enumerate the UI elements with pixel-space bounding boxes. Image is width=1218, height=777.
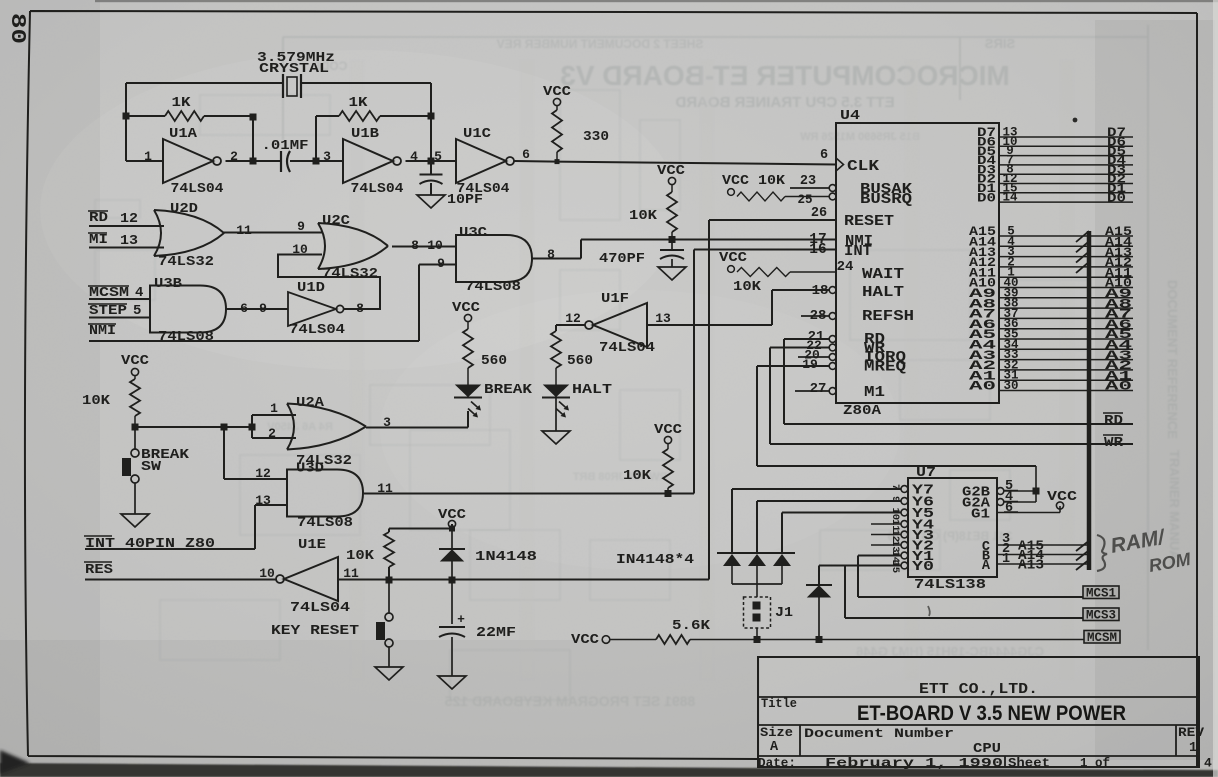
svg-text:VCC: VCC bbox=[1047, 490, 1077, 505]
svg-text:1K: 1K bbox=[172, 95, 192, 111]
junction CLK 330 bbox=[555, 159, 560, 164]
wire crystal feedback top bbox=[126, 83, 431, 161]
junction VCC diode node bbox=[449, 526, 455, 532]
pin 4 G2A of U7 bbox=[997, 499, 1004, 506]
svg-text:23: 23 bbox=[800, 174, 816, 189]
junction U2A tap bbox=[249, 424, 256, 431]
junction R2 bbox=[313, 158, 320, 165]
diode D5 1N4148 bbox=[451, 529, 453, 550]
svg-text:BUSRQ: BUSRQ bbox=[860, 192, 912, 208]
svg-text:19: 19 bbox=[802, 357, 818, 372]
ground KEY RESET bbox=[375, 667, 403, 680]
svg-text:INT: INT bbox=[844, 244, 872, 260]
svg-text:22MF: 22MF bbox=[476, 626, 516, 641]
svg-text:U1D: U1D bbox=[297, 281, 325, 296]
pin 9 Y6 of U7 bbox=[901, 498, 908, 505]
wire U2D out to U2C pin9 bbox=[224, 232, 322, 234]
svg-text:74LS04: 74LS04 bbox=[290, 601, 350, 616]
jumper J1 bbox=[756, 584, 758, 597]
diode D4 1N4148 bbox=[818, 566, 820, 586]
svg-text:D0: D0 bbox=[977, 190, 996, 205]
svg-text:10: 10 bbox=[259, 566, 275, 581]
wire CLK net bbox=[515, 161, 837, 165]
svg-text:12: 12 bbox=[255, 466, 271, 481]
bus ticks A15-A12 bbox=[1076, 231, 1089, 242]
svg-text:U1A: U1A bbox=[169, 127, 198, 142]
svg-text:25: 25 bbox=[797, 193, 812, 207]
diode D2 1N4148 bbox=[748, 554, 766, 566]
svg-text:A: A bbox=[770, 740, 779, 755]
junction KEY RESET node bbox=[386, 577, 393, 584]
svg-text:Size: Size bbox=[760, 725, 793, 740]
wire U3D pin12 bbox=[224, 427, 287, 479]
svg-text:RD: RD bbox=[1104, 414, 1123, 429]
wire U1F out to 560 bbox=[556, 325, 585, 331]
wire NMI to U3C pin9 bbox=[89, 265, 456, 342]
svg-text:A13: A13 bbox=[1018, 559, 1044, 574]
svg-text:14: 14 bbox=[1002, 191, 1018, 205]
resistor 5.6K bbox=[610, 639, 656, 641]
pin 11 Y4 of U7 bbox=[901, 521, 908, 528]
ground C4 bbox=[438, 676, 466, 689]
svg-text:February 1, 1990: February 1, 1990 bbox=[825, 756, 1003, 771]
svg-text:HALT: HALT bbox=[862, 285, 904, 301]
wire Y7 to diode rail bbox=[732, 489, 901, 553]
svg-text:M1: M1 bbox=[864, 385, 885, 401]
svg-text:16: 16 bbox=[809, 242, 826, 258]
svg-text:VCC: VCC bbox=[571, 633, 599, 648]
svg-text:DOCUMENT REFERENCE: DOCUMENT REFERENCE bbox=[1165, 280, 1180, 439]
svg-text:U4: U4 bbox=[840, 109, 860, 124]
svg-text:ET-BOARD V 3.5 NEW POWER: ET-BOARD V 3.5 NEW POWER bbox=[857, 701, 1126, 725]
svg-text:Title: Title bbox=[761, 696, 797, 711]
junction INT pullup bbox=[665, 490, 672, 497]
junction NMI cap node bbox=[669, 236, 676, 243]
svg-text:SW: SW bbox=[141, 460, 162, 475]
svg-text:26: 26 bbox=[811, 206, 827, 221]
LED BREAK bbox=[456, 385, 480, 397]
svg-text:U1F: U1F bbox=[601, 292, 629, 307]
wire Y4 stub bbox=[871, 523, 901, 525]
svg-text:J1: J1 bbox=[775, 606, 793, 621]
svg-text:CLK: CLK bbox=[847, 159, 879, 175]
VCC G1 bbox=[1056, 502, 1063, 509]
svg-text:WR: WR bbox=[1104, 436, 1124, 451]
ground C3 bbox=[658, 267, 686, 280]
wire Y1 to MCS1 bbox=[858, 556, 1083, 598]
wire INT40 net bbox=[85, 548, 255, 550]
svg-text:1: 1 bbox=[1002, 552, 1010, 567]
svg-text:U1E: U1E bbox=[298, 538, 326, 553]
ghost frame top-right bbox=[283, 25, 1148, 650]
ground BREAK SW bbox=[121, 514, 149, 527]
ground HALT LED bbox=[542, 431, 570, 444]
svg-text:8: 8 bbox=[356, 301, 364, 316]
svg-text:74LS04: 74LS04 bbox=[171, 182, 224, 197]
svg-text:6: 6 bbox=[1005, 501, 1013, 516]
junction BREAK net bbox=[132, 424, 139, 431]
LED HALT bbox=[544, 385, 568, 397]
wire MCSM net bbox=[690, 639, 1084, 641]
svg-text:G1: G1 bbox=[971, 508, 990, 523]
svg-text:74LS04: 74LS04 bbox=[351, 182, 404, 197]
wire Y3 stub bbox=[871, 534, 901, 536]
junction J1 on MCSM line bbox=[754, 636, 761, 643]
svg-text:REV: REV bbox=[1178, 726, 1205, 740]
pin 12 Y3 of U7 bbox=[901, 531, 908, 538]
svg-text:A0: A0 bbox=[1105, 379, 1132, 394]
pin 13 Y2 of U7 bbox=[901, 542, 908, 549]
svg-text:BREAK: BREAK bbox=[484, 383, 533, 398]
switch BREAK SW bbox=[134, 427, 136, 449]
svg-text:MCSM: MCSM bbox=[1087, 631, 1117, 645]
svg-text:80: 80 bbox=[5, 13, 28, 44]
wire BREAK net bbox=[135, 426, 252, 428]
svg-text:Z80A: Z80A bbox=[843, 403, 882, 419]
svg-text:RD: RD bbox=[89, 210, 108, 226]
svg-text:MCS3: MCS3 bbox=[1086, 609, 1116, 623]
pin 7 Y7 of U7 bbox=[901, 486, 908, 493]
svg-text:VCC: VCC bbox=[121, 354, 149, 369]
pin 10 Y5 of U7 bbox=[901, 509, 908, 516]
svg-text:VCC 10K: VCC 10K bbox=[722, 174, 786, 189]
svg-text:10K: 10K bbox=[346, 549, 375, 564]
svg-text:SHEET 2 DOCUMENT NUMBER REV: SHEET 2 DOCUMENT NUMBER REV bbox=[497, 37, 704, 51]
IC U4 Z80A box bbox=[836, 123, 999, 403]
svg-text:SIRS: SIRS bbox=[985, 36, 1016, 51]
svg-text:ETT CO.,LTD.: ETT CO.,LTD. bbox=[919, 681, 1038, 698]
wire MCSM to U3B bbox=[89, 298, 150, 300]
svg-text:74LS08: 74LS08 bbox=[297, 516, 353, 531]
svg-text:10K: 10K bbox=[623, 469, 652, 484]
wire Y2 stub bbox=[871, 544, 901, 546]
svg-text:U7: U7 bbox=[916, 466, 936, 481]
wire G2B G2A to MREQ bbox=[1035, 466, 1037, 502]
junction D4 on MCSM line bbox=[816, 636, 823, 643]
ghost vertical striping bbox=[350, 60, 364, 680]
pin 14 Y1 of U7 bbox=[901, 552, 908, 559]
svg-text:5: 5 bbox=[434, 149, 442, 164]
svg-text:KEY RESET: KEY RESET bbox=[271, 624, 359, 639]
svg-text:1: 1 bbox=[1189, 741, 1197, 756]
svg-text:U1C: U1C bbox=[463, 127, 491, 142]
svg-text:13: 13 bbox=[655, 311, 671, 326]
handwritten mark near title bbox=[928, 606, 930, 616]
wire U1B output bbox=[406, 160, 457, 162]
svg-text:B15 JR5690 M1526 RW: B15 JR5690 M1526 RW bbox=[800, 131, 920, 143]
svg-text:RES: RES bbox=[85, 562, 113, 578]
ink speck top-right bbox=[1073, 118, 1078, 123]
svg-text:24: 24 bbox=[837, 259, 854, 275]
wire U1D out loop to U2C pin10 bbox=[278, 255, 380, 310]
title block frame bbox=[758, 657, 1199, 767]
svg-text:74LS08: 74LS08 bbox=[158, 330, 214, 345]
capacitor C2 10PF bbox=[430, 161, 432, 174]
svg-text:3: 3 bbox=[323, 149, 331, 164]
svg-text:74LS138: 74LS138 bbox=[914, 577, 986, 593]
svg-text:2: 2 bbox=[268, 426, 276, 441]
pin 5 G2B of U7 bbox=[997, 488, 1004, 495]
svg-text:U1B: U1B bbox=[351, 127, 379, 142]
wire MI to U2D bbox=[89, 247, 164, 249]
wire U2A inputs bbox=[252, 415, 296, 438]
wire U1F in to HALT pin bbox=[647, 290, 829, 325]
wire Y6 to diode rail bbox=[757, 501, 901, 553]
svg-text:15: 15 bbox=[889, 561, 901, 574]
svg-text:74LS04: 74LS04 bbox=[599, 341, 655, 356]
wire Y0 to MCS3 and diode D4 bbox=[819, 566, 1083, 619]
junction crystal loop bbox=[123, 113, 130, 120]
svg-text:Y0: Y0 bbox=[912, 560, 934, 575]
wire RD to U2D bbox=[89, 225, 164, 227]
svg-text:U3C: U3C bbox=[459, 226, 487, 241]
junction diode node bbox=[449, 577, 456, 584]
address bus bar bbox=[1087, 231, 1092, 570]
svg-text:IN4148*4: IN4148*4 bbox=[616, 552, 694, 568]
wire RES to U1E bbox=[85, 579, 277, 581]
svg-text:470PF: 470PF bbox=[599, 252, 645, 267]
wire RESET net bbox=[338, 220, 836, 580]
svg-text:A: A bbox=[982, 559, 991, 574]
svg-text:10K: 10K bbox=[733, 280, 762, 295]
diode D3 1N4148 bbox=[773, 554, 791, 566]
wire U3D pin13 bbox=[255, 505, 287, 549]
svg-text:8891 SET PROGRAM KEYBOARD 125: 8891 SET PROGRAM KEYBOARD 125 bbox=[445, 693, 696, 709]
svg-text:30: 30 bbox=[1003, 379, 1018, 393]
svg-text:D0: D0 bbox=[1107, 190, 1126, 205]
svg-text:1 of: 1 of bbox=[1080, 756, 1110, 771]
svg-text:330: 330 bbox=[583, 130, 609, 145]
svg-text:6: 6 bbox=[522, 147, 530, 162]
wire U1A output bbox=[226, 160, 282, 162]
svg-text:1K: 1K bbox=[349, 95, 369, 111]
svg-text:74LS08: 74LS08 bbox=[465, 280, 521, 295]
wire U1A input bbox=[126, 160, 163, 162]
svg-text:1N4148: 1N4148 bbox=[475, 550, 537, 565]
svg-text:MCS1: MCS1 bbox=[1086, 587, 1116, 601]
svg-text:18: 18 bbox=[812, 283, 829, 299]
svg-text:12: 12 bbox=[565, 311, 581, 326]
wire C1 to U1B bbox=[290, 160, 343, 162]
svg-text:HALT: HALT bbox=[572, 383, 612, 398]
svg-text:27: 27 bbox=[810, 381, 827, 397]
svg-text:Date:: Date: bbox=[758, 756, 796, 771]
svg-text:74LS32: 74LS32 bbox=[322, 267, 378, 282]
switch KEY RESET bbox=[388, 580, 390, 613]
capacitor C4 22MF bbox=[451, 580, 453, 624]
junction U3D pin12 tap bbox=[221, 424, 228, 431]
svg-text:+: + bbox=[457, 612, 465, 627]
resistor 560 BREAK bbox=[463, 329, 473, 368]
svg-text:.01MF: .01MF bbox=[262, 139, 309, 154]
wire U2C out to U3C bbox=[392, 246, 456, 248]
svg-text:MI: MI bbox=[89, 232, 108, 248]
node MCS3 label bbox=[1083, 608, 1119, 621]
wire U3D out / INT net bbox=[364, 250, 836, 494]
diode pack IN4148x4 rails bbox=[717, 552, 795, 554]
svg-text:13: 13 bbox=[255, 493, 271, 508]
svg-text:VCC: VCC bbox=[452, 301, 480, 316]
svg-text:REFSH: REFSH bbox=[862, 309, 914, 325]
svg-text:Sheet: Sheet bbox=[1008, 756, 1050, 771]
svg-text:VCC: VCC bbox=[719, 251, 747, 266]
wire U3B out to U1D bbox=[226, 308, 288, 310]
ground C2 bbox=[417, 195, 445, 208]
svg-text:R4 A6 J450V: R4 A6 J450V bbox=[267, 421, 333, 433]
handwritten RAM/ROM note bbox=[1097, 535, 1107, 571]
svg-text:NMI: NMI bbox=[89, 323, 116, 339]
svg-text:1: 1 bbox=[270, 401, 278, 416]
diode D1 1N4148 bbox=[723, 554, 741, 566]
svg-text:10K: 10K bbox=[82, 394, 111, 409]
wire HALT LED to ground bbox=[555, 398, 557, 431]
svg-text:CRYSTAL: CRYSTAL bbox=[259, 62, 329, 77]
svg-text:RW 466 JR08 BRT: RW 466 JR08 BRT bbox=[572, 471, 667, 483]
svg-text:RESET: RESET bbox=[844, 214, 894, 230]
junction 10PF node bbox=[428, 158, 435, 165]
ghost circuit blobs bbox=[95, 250, 155, 300]
junction G2B bbox=[1033, 488, 1040, 495]
wire Y5 to diode rail bbox=[782, 513, 901, 554]
svg-text:WAIT: WAIT bbox=[862, 267, 904, 283]
svg-text:A0: A0 bbox=[969, 379, 996, 394]
svg-text:10K: 10K bbox=[629, 209, 658, 224]
svg-text:74LS32: 74LS32 bbox=[158, 255, 214, 270]
svg-text:8: 8 bbox=[547, 247, 555, 262]
svg-text:74LS04: 74LS04 bbox=[457, 182, 510, 197]
svg-text:9: 9 bbox=[297, 219, 305, 234]
pin 15 Y0 of U7 bbox=[901, 562, 908, 569]
wire STEP to U3B bbox=[89, 317, 150, 319]
node MCS1 label bbox=[1083, 586, 1119, 599]
svg-text:5.6K: 5.6K bbox=[672, 619, 711, 634]
svg-text:6: 6 bbox=[820, 148, 828, 163]
svg-text:560: 560 bbox=[567, 354, 593, 369]
svg-text:4: 4 bbox=[1204, 756, 1212, 771]
svg-text:Document Number: Document Number bbox=[804, 726, 954, 741]
IC U7 74LS138 box bbox=[908, 478, 997, 577]
wire U3C out to NMI pin of U4 bbox=[532, 240, 836, 259]
svg-text:11: 11 bbox=[236, 223, 252, 238]
wire U2A out to BREAK LED bbox=[366, 411, 468, 428]
svg-text:74LS04: 74LS04 bbox=[289, 323, 345, 338]
svg-text:560: 560 bbox=[481, 354, 507, 369]
LED HALT resistor 560 bbox=[551, 331, 561, 368]
node MCSM label bbox=[1084, 631, 1120, 644]
junction R1 bbox=[250, 114, 257, 121]
svg-text:12: 12 bbox=[120, 211, 138, 227]
svg-text:MREQ: MREQ bbox=[864, 360, 906, 376]
svg-text:MICROCOMPUTER ET-BOARD V3: MICROCOMPUTER ET-BOARD V3 bbox=[560, 60, 1010, 91]
